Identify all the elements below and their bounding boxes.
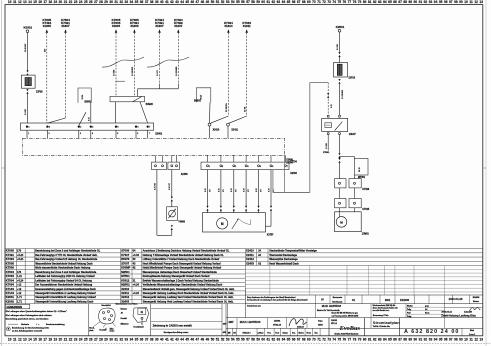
- svg-text:Zum Auslesen des Fachbogens de: Zum Auslesen des Fachbogens der Stadt! B…: [247, 296, 296, 299]
- svg-text:11: 11: [469, 338, 473, 342]
- svg-text:Der Aussenfahrner Steckerbinde: Der Aussenfahrner Steckerbinde Umlauf He…: [35, 284, 92, 287]
- svg-text:62: 62: [272, 338, 276, 342]
- svg-text:51: 51: [216, 0, 220, 4]
- svg-text:49: 49: [206, 338, 210, 342]
- svg-text:7: 7: [149, 127, 150, 129]
- svg-text:86: 86: [393, 338, 397, 342]
- svg-text:39: 39: [155, 338, 159, 342]
- svg-text:+12: +12: [17, 284, 22, 287]
- legend table grid: [5, 249, 245, 304]
- svg-text:1.21: 1.21: [17, 275, 22, 278]
- svg-text:54: 54: [231, 0, 235, 4]
- svg-text:77: 77: [348, 0, 352, 4]
- label wire Y4806 feed: [169, 182, 171, 190]
- svg-text:75: 75: [337, 0, 341, 4]
- label wire W4 gauge: [132, 66, 134, 76]
- svg-text:K50MP: K50MP: [121, 266, 130, 270]
- wire W4 feed K7605: [130, 18, 139, 96]
- wire B0501 switch arm: [79, 112, 86, 125]
- svg-text:K7504: K7504: [6, 278, 15, 282]
- svg-text:11: 11: [13, 0, 17, 4]
- svg-text:176: 176: [17, 271, 22, 274]
- svg-text:Sternstecker von Oben: Sternstecker von Oben: [116, 302, 139, 305]
- wire W1 feed K7605: [42, 18, 51, 123]
- svg-text:K0301: K0301: [24, 26, 33, 30]
- svg-text:1 von 1: 1 von 1: [469, 334, 475, 336]
- svg-text:28: 28: [99, 0, 103, 4]
- svg-text:14: 14: [28, 0, 32, 4]
- svg-text:Steuergerät Unterstützung Lauf: Steuergerät Unterstützung Laufweg Heizun…: [35, 300, 94, 303]
- wire resistor down: [354, 175, 356, 179]
- node X2411: [227, 123, 239, 131]
- svg-text:X2410: X2410: [246, 249, 254, 253]
- connector below fuse 13F16: [338, 79, 340, 84]
- svg-text:32: 32: [119, 0, 123, 4]
- notes symbol line: [6, 326, 49, 332]
- svg-text:29: 29: [104, 0, 108, 4]
- relay pin upper right: [339, 115, 341, 117]
- relay pin lower right: [339, 133, 341, 135]
- svg-text:07/26.10 3: 07/26.10 3: [243, 332, 251, 334]
- svg-text:Heck Windkristall Pumpe Dach S: Heck Windkristall Pumpe Dach Steuergerät…: [143, 262, 221, 265]
- svg-text:K7064: K7064: [6, 274, 15, 278]
- svg-text:M: M: [340, 221, 343, 225]
- svg-text:41: 41: [141, 311, 144, 314]
- svg-text:EvoBus: EvoBus: [339, 325, 361, 332]
- svg-text:X7501: X7501: [323, 152, 330, 154]
- svg-text:40: 40: [160, 338, 164, 342]
- node X2410: [208, 123, 220, 131]
- svg-text:Ersatz für MB OM Werknorm gez.: Ersatz für MB OM Werknorm gez.: [332, 312, 359, 315]
- svg-text:M2501: M2501: [121, 270, 130, 274]
- svg-text:59: 59: [256, 0, 260, 4]
- svg-text:M7501: M7501: [121, 274, 130, 278]
- svg-text:74: 74: [332, 338, 336, 342]
- svg-text:10: 10: [464, 338, 468, 342]
- svg-text:Steuergerät Heizung Laufweg Ve: Steuergerät Heizung Laufweg Vent Umlauf …: [143, 296, 234, 299]
- svg-text:78: 78: [353, 338, 357, 342]
- wire X2403 pin3 stub up: [233, 155, 235, 162]
- svg-text:GEMEINDEN: GEMEINDEN: [6, 305, 22, 309]
- svg-text:7: 7: [149, 133, 150, 135]
- revision table ruled lines: [245, 266, 482, 296]
- svg-text:2003-05-13: 2003-05-13: [442, 312, 453, 314]
- svg-text:38: 38: [150, 338, 154, 342]
- svg-text:24: 24: [79, 338, 83, 342]
- svg-text:Klemme: Klemme: [121, 309, 128, 311]
- svg-text:Bez.Fahrzeugtyp 3 YTD OL Steck: Bez.Fahrzeugtyp 3 YTD OL Steckerbinde Um…: [35, 254, 98, 257]
- svg-text:K7605: K7605: [6, 249, 15, 253]
- svg-text:K7491: K7491: [6, 253, 15, 257]
- svg-text:u.a Fassung unterz. DIN EN 34/: u.a Fassung unterz. DIN EN 34/05: [332, 314, 359, 317]
- svg-text:47: 47: [196, 338, 200, 342]
- title block grid: [226, 289, 483, 336]
- svg-text:0.75: 0.75: [218, 188, 220, 192]
- svg-text:platz: platz: [89, 329, 93, 332]
- svg-text:2.5 RD: 2.5 RD: [337, 43, 339, 50]
- label wire W5 gauge: [157, 69, 159, 76]
- svg-text:4/03: 4/03: [223, 331, 226, 334]
- svg-text:74: 74: [332, 0, 336, 4]
- svg-text:31: 31: [114, 338, 118, 342]
- contact B0503: [194, 88, 211, 103]
- svg-text:84: 84: [383, 338, 387, 342]
- svg-text:50: 50: [211, 0, 215, 4]
- svg-text:95: 95: [439, 338, 443, 342]
- svg-text:23: 23: [74, 338, 78, 342]
- svg-text:K7525: K7525: [362, 209, 369, 211]
- svg-text:+12: +12: [17, 288, 22, 291]
- svg-text:1.0 BN/WS: 1.0 BN/WS: [176, 66, 178, 76]
- svg-text:0.75: 0.75: [331, 104, 333, 108]
- label wire K2501: [337, 43, 339, 50]
- svg-text:97: 97: [449, 338, 453, 342]
- svg-text:93: 93: [429, 0, 433, 4]
- svg-text:Wasserpilze Dachanlage: Wasserpilze Dachanlage: [269, 258, 298, 261]
- svg-text:84: 84: [383, 0, 387, 4]
- svg-text:69: 69: [307, 0, 311, 4]
- title block row C text: [228, 312, 400, 333]
- svg-text:GY: GY: [260, 189, 262, 192]
- svg-text:5: 5: [118, 127, 119, 129]
- svg-text:Heck Wasserkristall Dach: Heck Wasserkristall Dach: [269, 262, 299, 265]
- svg-text:EvoBus GmbH Werk Mannheim: EvoBus GmbH Werk Mannheim: [335, 334, 359, 336]
- svg-text:79: 79: [358, 338, 362, 342]
- svg-text:40: 40: [160, 0, 164, 4]
- svg-text:66: 66: [292, 0, 296, 4]
- svg-text:65: 65: [287, 338, 291, 342]
- svg-text:Vorläufende Wasserschaltanlage: Vorläufende Wasserschaltanlage Steckerbi…: [143, 284, 223, 287]
- svg-text:25: 25: [84, 338, 88, 342]
- svg-text:90: 90: [414, 0, 418, 4]
- svg-text:17: 17: [43, 0, 47, 4]
- label wire Y4806 return: [154, 182, 156, 190]
- svg-text:Leitfaden bei Fahrzeugtyp 2410: Leitfaden bei Fahrzeugtyp 2410 OL Heizun…: [35, 275, 95, 278]
- svg-text:85: 85: [388, 338, 392, 342]
- svg-text:37: 37: [145, 0, 149, 4]
- svg-text:Baumuster: Baumuster: [333, 296, 343, 299]
- node K2501: [336, 25, 345, 32]
- svg-text:45: 45: [185, 0, 189, 4]
- svg-text:4: 4: [92, 132, 93, 135]
- svg-text:Variante: Variante: [21, 323, 30, 326]
- svg-text:41: 41: [165, 0, 169, 4]
- svg-text:S7006: S7006: [121, 249, 129, 253]
- wire bus to B3E26: [138, 89, 179, 97]
- connector relay coil feed: [327, 93, 329, 98]
- svg-text:78: 78: [353, 0, 357, 4]
- svg-text:69: 69: [307, 338, 311, 342]
- svg-text:Steckbild: Steckbild: [101, 304, 111, 307]
- svg-text:Betriebsanl.: Betriebsanl.: [332, 300, 343, 303]
- svg-text:36: 36: [140, 0, 144, 4]
- wire branch right: [340, 157, 355, 159]
- svg-text:55: 55: [236, 338, 240, 342]
- svg-text:36: 36: [140, 338, 144, 342]
- svg-text:65: 65: [287, 0, 291, 4]
- svg-text:43: 43: [133, 258, 136, 261]
- node K0301: [24, 26, 33, 33]
- svg-text:JA: JA: [258, 250, 261, 253]
- svg-text:K2501: K2501: [336, 25, 345, 29]
- svg-text:53: 53: [226, 338, 230, 342]
- wire X2403 pin6 stub up: [270, 155, 272, 162]
- svg-text:86: 86: [393, 0, 397, 4]
- svg-text:38: 38: [150, 0, 154, 4]
- svg-text:76: 76: [343, 338, 347, 342]
- notes header GEMEINDEN: [5, 304, 30, 309]
- svg-text:Lüftung Unterstützte 7 Umlauf: Lüftung Unterstützte 7 Umlauf Heizung Da…: [143, 258, 220, 261]
- svg-text:31605: 31605: [130, 24, 139, 28]
- wire K7526 to K7525 left: [339, 188, 341, 199]
- svg-text:1.5 RD: 1.5 RD: [25, 108, 27, 115]
- svg-text:47: 47: [196, 0, 200, 4]
- wire W2 switch arm to pin: [47, 118, 65, 123]
- svg-text:31605: 31605: [43, 24, 52, 28]
- svg-text:0.75: 0.75: [244, 188, 246, 192]
- svg-text:43: 43: [175, 338, 179, 342]
- legend table block A text: [6, 249, 101, 304]
- svg-text:Thermostat Dachanlage: Thermostat Dachanlage: [269, 254, 297, 257]
- svg-text:26: 26: [89, 0, 93, 4]
- svg-text:31607: 31607: [61, 24, 70, 28]
- wire W8 to X2411: [229, 116, 247, 123]
- svg-text:1.0 RD/BK: 1.0 RD/BK: [342, 89, 344, 99]
- frame right center mark: [483, 167, 486, 169]
- label wire W6 gauge: [176, 66, 178, 76]
- wire X2411 stub: [227, 126, 229, 138]
- svg-text:1: 1: [209, 166, 210, 168]
- svg-text:13: 13: [23, 338, 27, 342]
- svg-text:2001: 2001: [385, 299, 391, 302]
- svg-text:13H07: 13H07: [349, 134, 357, 136]
- svg-text:A2: A2: [258, 262, 262, 265]
- wire X2403 pin4 stub up: [245, 155, 247, 162]
- wire X2403 pin1 stub up: [207, 155, 209, 162]
- svg-text:43: 43: [133, 262, 136, 265]
- wire X2401 pin4 stub: [91, 130, 93, 138]
- svg-text:99: 99: [459, 0, 463, 4]
- svg-text:IV: IV: [321, 297, 324, 301]
- svg-text:0.75 GY: 0.75 GY: [169, 182, 171, 190]
- svg-text:13F16: 13F16: [348, 78, 355, 80]
- svg-text:Binder für Teil-Vorschrift:: Binder für Teil-Vorschrift:: [317, 309, 340, 312]
- svg-text:weise: weise: [110, 331, 115, 333]
- svg-text:K7604: K7604: [6, 270, 15, 274]
- svg-text:72: 72: [322, 338, 326, 342]
- label wire W7 gauge: [226, 103, 228, 112]
- svg-text:+5.24: +5.24: [17, 258, 24, 261]
- wire pump feed 5: [256, 170, 263, 213]
- svg-text:0.75: 0.75: [256, 188, 258, 192]
- svg-text:27: 27: [94, 0, 98, 4]
- svg-text:Wasserdichte Steckerbinde Umla: Wasserdichte Steckerbinde Umlauf Heizung…: [35, 262, 93, 265]
- svg-text:18: 18: [48, 0, 52, 4]
- svg-text:54: 54: [231, 338, 235, 342]
- svg-text:M2502: M2502: [121, 283, 130, 287]
- svg-text:B3E26: B3E26: [146, 104, 154, 106]
- svg-text:14: 14: [28, 338, 32, 342]
- svg-text:GY: GY: [209, 189, 211, 192]
- svg-text:12: 12: [474, 0, 478, 4]
- label X7501: [323, 152, 330, 154]
- svg-text:Dat.: Dat.: [315, 331, 319, 334]
- wire return loop: [273, 83, 328, 193]
- svg-text:+5.24: +5.24: [17, 254, 24, 257]
- svg-text:66: 66: [292, 338, 296, 342]
- svg-text:K5012: K5012: [121, 278, 130, 282]
- svg-text:Durchgesehen-Beleg unterz.: Durchgesehen-Beleg unterz.: [164, 331, 189, 334]
- svg-text:Zeichnung in CADDS neu erstell: Zeichnung in CADDS neu erstellt: [153, 325, 192, 328]
- svg-text:Steuergerät Unterstützte A Lau: Steuergerät Unterstützte A Laufweg Heizu…: [35, 292, 96, 295]
- svg-text:13F26: 13F26: [36, 92, 43, 94]
- svg-text:0.75 BN: 0.75 BN: [154, 182, 156, 190]
- svg-text:Nicht wasserdichte Steckerbind: Nicht wasserdichte Steckerbinde Dach Hei…: [35, 267, 91, 270]
- svg-text:A 632 820 24 00: A 632 820 24 00: [404, 329, 459, 335]
- svg-text:WE: WE: [228, 332, 232, 334]
- svg-text:4: 4: [248, 165, 249, 168]
- svg-text:73: 73: [327, 0, 331, 4]
- legend table block C grid: [245, 249, 482, 266]
- svg-text:Heizk.Windkristall Pumpe Dach: Heizk.Windkristall Pumpe Dach Steuergerä…: [143, 267, 222, 270]
- wire X2403 pin2 stub up: [220, 155, 222, 162]
- label X2606 X7754: [286, 160, 293, 165]
- wire pump feed 4: [244, 170, 251, 213]
- svg-text:11: 11: [469, 0, 473, 4]
- svg-text:93: 93: [429, 338, 433, 342]
- svg-text:24: 24: [79, 0, 83, 4]
- svg-text:Gepr.: Gepr.: [318, 320, 323, 322]
- svg-text:61: 61: [266, 338, 270, 342]
- svg-text:20: 20: [59, 338, 63, 342]
- svg-text:29: 29: [104, 338, 108, 342]
- wire relay out right: [339, 135, 341, 154]
- svg-text:58: 58: [251, 0, 255, 4]
- wire K7526 to K7525 right: [354, 188, 356, 199]
- wire into fuse 13F16: [339, 57, 341, 63]
- svg-text:80: 80: [363, 338, 367, 342]
- svg-text:13: 13: [479, 338, 483, 342]
- svg-text:X2403: X2403: [246, 261, 254, 265]
- paper left edge: [1, 0, 3, 346]
- svg-text:13: 13: [23, 0, 27, 4]
- svg-text:Datum: Datum: [283, 331, 289, 334]
- svg-text:Teil-Nr. / Zeichn.-Nr.:: Teil-Nr. / Zeichn.-Nr.:: [373, 326, 391, 328]
- svg-text:X2401: X2401: [155, 133, 163, 136]
- wire W6 feed K7494: [174, 18, 183, 83]
- wire pump feed 1: [205, 170, 212, 213]
- svg-text:64: 64: [282, 338, 286, 342]
- svg-text:85: 85: [388, 0, 392, 4]
- svg-text:57: 57: [246, 338, 250, 342]
- wire W5 feed K7494: [155, 18, 164, 83]
- svg-text:+12: +12: [17, 292, 22, 295]
- svg-text:31: 31: [114, 0, 118, 4]
- title block row D text: [228, 329, 475, 336]
- svg-text:5: 5: [260, 166, 261, 168]
- svg-text:1: 1: [29, 127, 30, 129]
- svg-text:49: 49: [206, 0, 210, 4]
- svg-text:04/03: 04/03: [318, 323, 323, 326]
- svg-text:Bindor: Bindor: [298, 332, 304, 334]
- svg-text:41: 41: [165, 338, 169, 342]
- svg-text:81: 81: [368, 0, 372, 4]
- svg-text:X2412: X2412: [121, 295, 129, 299]
- svg-text:M7501: M7501: [358, 177, 366, 179]
- wire X2401 pin2 stub: [47, 130, 49, 138]
- svg-text:X2412: X2412: [246, 257, 254, 261]
- connector X2408: [168, 162, 188, 176]
- svg-text:3: 3: [235, 166, 236, 168]
- svg-text:6: 6: [137, 133, 138, 135]
- svg-text:2: 2: [222, 166, 223, 168]
- svg-text:Kontakt: Kontakt: [100, 329, 107, 332]
- svg-text:Leitfaden bei Fahrzeugtyp Umla: Leitfaden bei Fahrzeugtyp Umlauf 24 OL H…: [35, 279, 92, 282]
- wire K7525 to motor right: [354, 208, 356, 212]
- svg-text:22: 22: [69, 0, 73, 4]
- svg-text:K7506: K7506: [6, 266, 15, 270]
- svg-text:56: 56: [241, 0, 245, 4]
- svg-text:17: 17: [43, 338, 47, 342]
- svg-text:34: 34: [130, 0, 134, 4]
- svg-text:31: 31: [133, 279, 136, 282]
- svg-text:5: 5: [117, 133, 118, 135]
- svg-text:68: 68: [302, 338, 306, 342]
- wire X2410 stub: [209, 126, 211, 138]
- relay 13H07: [322, 118, 357, 135]
- svg-text:92: 92: [424, 338, 428, 342]
- svg-text:MAD H2355/03: MAD H2355/03: [240, 320, 261, 324]
- svg-text:60: 60: [261, 338, 265, 342]
- svg-text:99: 99: [459, 338, 463, 342]
- svg-text:176: 176: [17, 250, 22, 253]
- svg-text:2.06.13: 2.06.13: [258, 332, 264, 334]
- svg-text:Die Leitungen ohne Querschnitt: Die Leitungen ohne Querschnittsangaben h…: [6, 310, 67, 313]
- svg-text:1.0 BK/RD: 1.0 BK/RD: [132, 66, 134, 76]
- wire X2401 pin5 stub: [116, 130, 118, 138]
- wire B0501 right pin down: [90, 103, 92, 123]
- connector strip X2401: [21, 123, 163, 136]
- svg-text:11.40.007: 11.40.007: [24, 44, 27, 52]
- svg-text:Steuergerät Unterstützte B Lau: Steuergerät Unterstützte B Laufweg Heizu…: [35, 296, 96, 299]
- svg-text:52: 52: [221, 0, 225, 4]
- svg-text:63: 63: [277, 338, 281, 342]
- svg-text:33: 33: [125, 0, 129, 4]
- wire X2401 pin3 stub: [79, 130, 81, 138]
- wire X2403 pin5 stub up: [258, 155, 260, 162]
- svg-text:21: 21: [64, 0, 68, 4]
- svg-text:K7144: K7144: [6, 291, 15, 295]
- wire relay out left: [327, 135, 329, 151]
- svg-text:bei Ausdruck von Anhang in der: bei Ausdruck von Anhang in der gedruckt …: [247, 299, 308, 302]
- svg-text:96: 96: [444, 338, 448, 342]
- svg-text:1:1: 1:1: [425, 309, 428, 311]
- cable loop symbol over W3 W4: [102, 57, 144, 67]
- svg-text:39: 39: [155, 0, 159, 4]
- svg-text:73: 73: [327, 338, 331, 342]
- svg-text:31607: 31607: [174, 24, 183, 28]
- connector row K7525: [335, 199, 370, 211]
- svg-text:51: 51: [216, 338, 220, 342]
- svg-text:34: 34: [130, 338, 134, 342]
- svg-text:71: 71: [317, 338, 321, 342]
- bottom ruler scale numbers: [8, 338, 483, 342]
- notes variant line: [8, 323, 65, 326]
- title block row A text: [247, 296, 480, 303]
- svg-text:X2411: X2411: [231, 129, 238, 132]
- svg-text:15: 15: [33, 338, 37, 342]
- svg-text:E/2608: E/2608: [473, 297, 480, 299]
